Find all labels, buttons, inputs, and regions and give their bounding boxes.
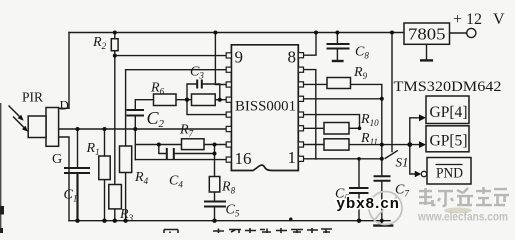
wire C8 top lead bbox=[336, 33, 338, 45]
svg-text:www.elecfans.com: www.elecfans.com bbox=[417, 210, 508, 224]
wire C5 bottom lead bbox=[214, 207, 216, 221]
resistor (unlabeled, parallel with C3) bbox=[192, 94, 216, 106]
switch S1 blade bbox=[385, 151, 397, 159]
svg-text:+ 12: + 12 bbox=[453, 11, 482, 28]
capacitor C5 bbox=[204, 202, 226, 207]
resistor R8 bbox=[209, 177, 220, 193]
wire 7805 output bbox=[450, 32, 467, 34]
svg-text:S1: S1 bbox=[396, 155, 409, 170]
TMS320DM642 PND box bbox=[427, 158, 471, 185]
wire PND feed dropper bbox=[410, 145, 415, 174]
wire R7 row left bbox=[135, 144, 181, 146]
wire C4 right lead bbox=[174, 153, 215, 155]
wire R4 riser bbox=[125, 70, 127, 146]
svg-text:PIR: PIR bbox=[22, 90, 43, 105]
svg-text:TMS320DM642: TMS320DM642 bbox=[394, 79, 502, 95]
wire pin8 riser to rail bbox=[304, 33, 317, 56]
caption (cut off at bottom edge) bbox=[164, 228, 332, 233]
capacitor C6 bbox=[349, 188, 369, 193]
wire C6 bottom lead bbox=[358, 193, 360, 221]
resistor R4 bbox=[120, 146, 132, 173]
resistor R11 bbox=[324, 139, 349, 150]
wire pin10 row bbox=[126, 69, 227, 71]
wire R6 to box2 junction A bbox=[176, 99, 192, 101]
wire pin4 row corner bbox=[304, 115, 360, 129]
IR ray arrows at PIR bbox=[9, 106, 25, 128]
IC left pin squares bbox=[226, 53, 231, 162]
scan edge artifacts bbox=[0, 103, 2, 233]
wire pin7 dropper bbox=[304, 70, 316, 159]
wire left vertical (D to rail) bbox=[57, 33, 69, 109]
wire R10 right bbox=[349, 127, 360, 129]
wire R1 leads bbox=[104, 129, 106, 221]
svg-text:PND: PND bbox=[436, 166, 463, 182]
wire C8 bottom lead bbox=[336, 49, 338, 60]
wire R9 output corner bbox=[351, 84, 382, 98]
watermark tan smudge bbox=[444, 208, 472, 214]
capacitor C1 bbox=[64, 44, 391, 207]
wire R8 to C5 bbox=[214, 192, 216, 202]
wire pin1 row bbox=[304, 158, 382, 160]
wire source line (S of PIR to pin14) bbox=[59, 128, 227, 130]
IC right pin squares bbox=[298, 53, 303, 162]
resistor R9 bbox=[327, 78, 351, 89]
resistor R10 bbox=[324, 123, 349, 135]
PIR sensor body bbox=[46, 108, 59, 147]
svg-text:V: V bbox=[493, 11, 505, 28]
PIR sensor window bbox=[28, 116, 46, 138]
wire +12V top rail bbox=[69, 32, 404, 34]
wire C6 top lead bbox=[358, 159, 360, 188]
resistor R2 bbox=[111, 39, 118, 51]
TMS320DM642 GP[5] box bbox=[426, 126, 469, 152]
TMS320DM642 GP[4] box bbox=[426, 96, 469, 124]
+12V terminal circle bbox=[467, 28, 476, 37]
wire pin11 riser from rail bbox=[215, 33, 226, 85]
arrowhead into PND bbox=[415, 171, 422, 178]
wire box2 to pin12 bbox=[215, 99, 226, 101]
wire pin5 row bbox=[304, 98, 382, 100]
svg-text:GP[5]: GP[5] bbox=[430, 133, 468, 150]
inverter bubble at PND bbox=[421, 171, 426, 176]
wire C7 to ground bbox=[381, 181, 383, 226]
capacitor C8 bbox=[327, 44, 350, 49]
wire pin3 to R10 bbox=[304, 127, 325, 129]
wire R7/C4 node down to R8 bbox=[214, 145, 216, 177]
wire R7 row right to pin15 bbox=[204, 144, 226, 146]
svg-text:7805: 7805 bbox=[408, 25, 446, 44]
wire bottom ground rail bbox=[69, 220, 390, 222]
resistor R7 bbox=[182, 139, 205, 150]
wire C3 parallel loop bbox=[187, 84, 220, 100]
wire R2-R3 column bbox=[114, 33, 116, 185]
svg-text:ybx8.cn: ybx8.cn bbox=[337, 195, 401, 212]
wire C2 top lead to R6 bbox=[135, 100, 153, 110]
arrowhead into GP5 bbox=[419, 141, 426, 148]
capacitor C4 bbox=[167, 148, 174, 159]
wire pin6 to R9 bbox=[304, 83, 328, 85]
watermark chinese characters (approximated strokes) bbox=[418, 186, 508, 205]
svg-text:GP[4]: GP[4] bbox=[430, 104, 468, 121]
capacitor C2 bbox=[127, 110, 145, 116]
svg-text:9: 9 bbox=[235, 48, 244, 67]
wire G lead to ground rail bbox=[59, 137, 70, 221]
ground bar under C8 bbox=[332, 60, 344, 62]
svg-text:G: G bbox=[52, 152, 62, 167]
wire pin9 row bbox=[115, 55, 226, 57]
wire C2 bottom lead bbox=[134, 116, 136, 130]
capacitor C3 bbox=[197, 80, 202, 89]
resistor R6 bbox=[154, 94, 177, 106]
wire pin16 row bbox=[135, 159, 226, 161]
resistor R1 bbox=[99, 156, 110, 180]
svg-text:1: 1 bbox=[288, 148, 297, 167]
ground bar under 7805 bbox=[420, 59, 433, 61]
wire C4 left lead bbox=[159, 145, 167, 154]
ground bar under C7 bbox=[373, 224, 393, 226]
wire pin2 to R11 bbox=[304, 144, 325, 146]
svg-text:BISS0001: BISS0001 bbox=[235, 99, 296, 115]
svg-text:16: 16 bbox=[235, 149, 252, 168]
wire right vertical node to C7 bbox=[381, 99, 383, 177]
svg-text:8: 8 bbox=[288, 48, 297, 67]
watermark elecfans logo circle bbox=[369, 192, 402, 225]
wire 7805 ground stub bbox=[426, 44, 428, 60]
wire S1 riser from rail bbox=[391, 33, 393, 152]
wire junction A down to pin13 row bbox=[187, 100, 226, 115]
wire feedback column C2/R7/pin16 bbox=[134, 129, 136, 160]
wire R4 bottom lead bbox=[125, 173, 127, 221]
wire R3 bottom lead bbox=[114, 209, 116, 221]
svg-text:D: D bbox=[60, 98, 69, 113]
resistor R3 bbox=[109, 185, 122, 209]
arrowhead into GP4 bbox=[419, 114, 426, 121]
wire C1 leads bbox=[77, 129, 79, 168]
regulator 7805 box bbox=[404, 23, 450, 44]
capacitor C7 bbox=[374, 176, 391, 181]
wire GP4 feed riser bbox=[410, 118, 420, 145]
IC U1 BISS0001 body bbox=[231, 45, 298, 171]
wire R11 output row to GP5 bbox=[349, 144, 420, 146]
